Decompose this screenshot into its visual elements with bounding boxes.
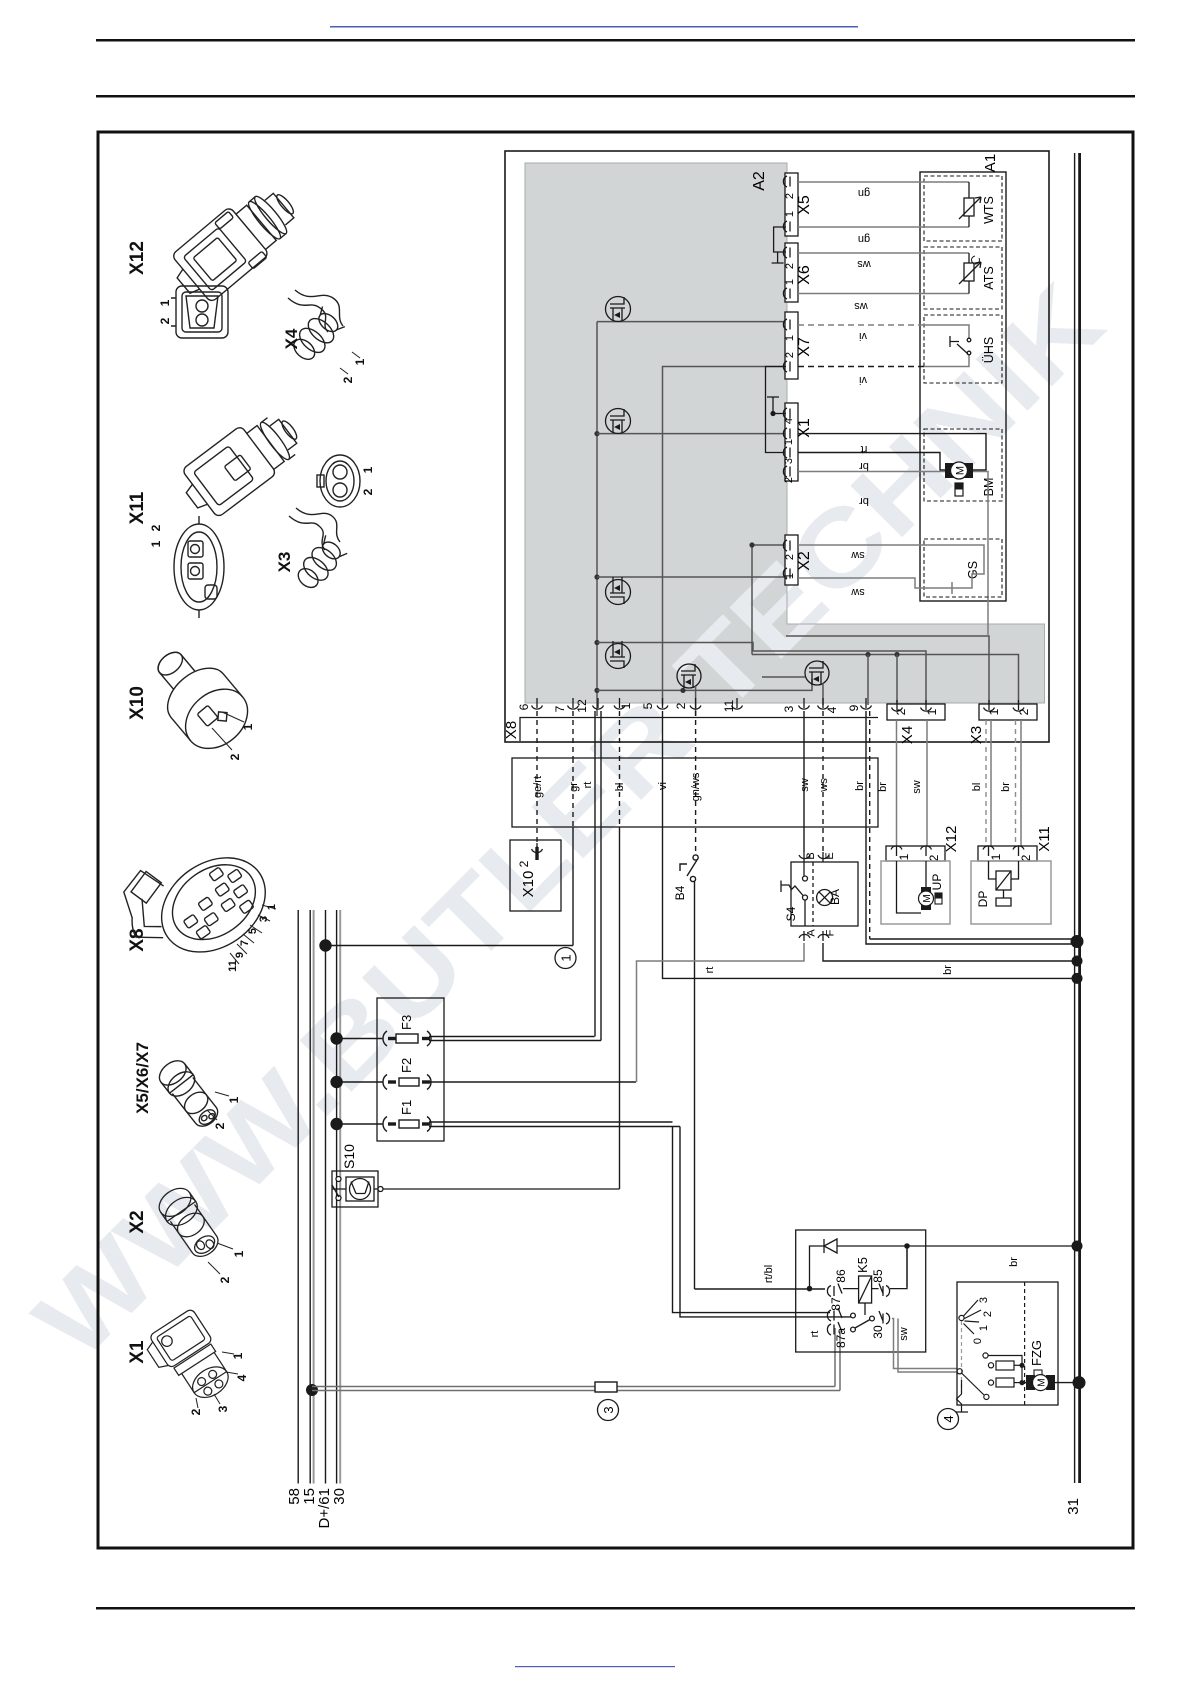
wire K5.30 sw to FZG	[892, 1319, 957, 1373]
svg-text:30: 30	[871, 1325, 885, 1339]
UHS switch box	[924, 315, 1002, 383]
svg-text:2: 2	[784, 554, 796, 560]
FZG resistor ladder	[983, 1353, 1025, 1387]
fuse box	[377, 998, 444, 1141]
svg-text:1: 1	[784, 573, 796, 579]
MOSFET Q6	[762, 661, 829, 705]
svg-text:2: 2	[1017, 708, 1031, 715]
circled 1	[555, 948, 576, 969]
svg-text:X6: X6	[796, 265, 813, 285]
ECU grey base fill	[525, 163, 1045, 703]
svg-text:vi: vi	[859, 330, 867, 342]
MOSFET Q2	[606, 409, 631, 434]
svg-text:87: 87	[829, 1297, 843, 1311]
circled 4	[938, 1409, 959, 1430]
svg-text:X1: X1	[796, 418, 813, 438]
wire ge/rt	[536, 711, 538, 852]
svg-text:UP: UP	[930, 874, 944, 891]
svg-text:2: 2	[784, 193, 796, 199]
svg-text:1: 1	[158, 299, 172, 306]
connector X11 wire to X3 boot	[296, 508, 340, 542]
GS element symbol	[952, 567, 984, 594]
bus D+/61	[325, 910, 327, 1484]
fuse F3	[331, 1031, 601, 1046]
svg-text:85: 85	[871, 1269, 885, 1283]
svg-text:4: 4	[235, 1374, 249, 1381]
BM motor box	[924, 429, 1002, 501]
wire X6.1 ws	[798, 293, 969, 295]
K5 diode branch	[807, 1239, 1078, 1291]
svg-text:X5/X6/X7: X5/X6/X7	[133, 1042, 152, 1114]
svg-text:X4: X4	[282, 328, 301, 349]
connector X1 body	[142, 1308, 239, 1412]
svg-text:F: F	[825, 929, 837, 936]
svg-text:br: br	[859, 495, 869, 507]
svg-text:1: 1	[987, 708, 1001, 715]
svg-text:A1: A1	[982, 154, 999, 172]
bus 15	[309, 910, 311, 1484]
svg-text:3: 3	[783, 458, 795, 464]
wire vi to bus31	[663, 711, 1079, 978]
svg-text:gn/ws: gn/ws	[690, 772, 702, 801]
X8 connector bracket	[520, 718, 878, 742]
wire X5.1 gn	[798, 226, 969, 228]
wire X4.2 br to X12.1	[896, 720, 898, 849]
connector X8 body	[106, 815, 283, 986]
svg-text:sw: sw	[851, 549, 865, 561]
X3 pin box	[979, 700, 1037, 720]
svg-text:X11: X11	[1036, 826, 1053, 852]
svg-text:gn: gn	[858, 233, 870, 245]
footer blue rule	[515, 1666, 675, 1667]
wire sw to S4	[803, 711, 805, 852]
svg-text:br: br	[854, 781, 866, 791]
X8 pin leaders	[230, 905, 276, 964]
internal wire to X1.1	[597, 433, 786, 435]
bus 30	[336, 910, 338, 1484]
SECTION: bus lines	[298, 910, 340, 1484]
sleeve symbol on pair	[595, 1382, 617, 1392]
svg-text:1: 1	[783, 439, 795, 445]
switch B4	[680, 855, 698, 1289]
X10 box	[510, 840, 561, 911]
wire X5.2 gn	[798, 181, 969, 183]
svg-text:2: 2	[218, 1276, 232, 1283]
X2 pin leaders	[208, 1243, 233, 1274]
svg-text:vi: vi	[859, 374, 867, 386]
svg-text:X4: X4	[899, 726, 916, 744]
svg-text:X8: X8	[127, 928, 148, 951]
svg-text:X10: X10	[520, 871, 537, 898]
svg-text:bl: bl	[971, 783, 983, 792]
connector X5/X6/X7 body	[155, 1056, 224, 1132]
svg-text:K5: K5	[855, 1257, 870, 1273]
svg-text:1: 1	[266, 904, 278, 910]
svg-text:4: 4	[825, 706, 839, 713]
svg-text:1: 1	[784, 279, 796, 285]
svg-text:1: 1	[897, 853, 911, 860]
svg-text:BA: BA	[828, 889, 842, 905]
svg-text:ge/rt: ge/rt	[532, 776, 544, 798]
boot X4	[288, 307, 345, 366]
svg-text:X3: X3	[275, 552, 294, 573]
MOSFET Q1	[606, 297, 631, 322]
svg-text:2: 2	[674, 702, 688, 709]
svg-text:M: M	[955, 466, 967, 475]
bracket X7.2-X1.3	[766, 367, 787, 453]
wire X4.1 sw to X12.2	[926, 720, 928, 849]
svg-text:0: 0	[972, 1338, 984, 1344]
svg-text:S10: S10	[341, 1144, 357, 1169]
UHS thermo switch	[950, 336, 971, 355]
wire rt pair	[595, 711, 601, 1041]
svg-text:X12: X12	[127, 241, 148, 275]
UP dosing pump body	[881, 861, 950, 924]
svg-text:1: 1	[978, 1325, 990, 1331]
FZG blower motor	[1022, 1375, 1079, 1391]
svg-text:E: E	[824, 852, 836, 859]
FZG icon	[1034, 1370, 1042, 1382]
svg-text:B: B	[805, 852, 817, 859]
svg-text:br: br	[1008, 1257, 1020, 1267]
ECU grey body A2	[525, 163, 1045, 703]
svg-text:F1: F1	[399, 1100, 414, 1115]
heater switch S4 with lamp BA	[781, 852, 858, 941]
wire X3.2 br pair to X11.2	[1015, 720, 1017, 849]
svg-text:1: 1	[149, 540, 163, 547]
wire X1.2 br	[798, 472, 988, 637]
footer rule	[96, 1607, 1135, 1610]
connector strip X6	[783, 243, 798, 302]
svg-text:2: 2	[213, 1122, 227, 1129]
svg-text:gn: gn	[858, 187, 870, 199]
svg-text:sw: sw	[898, 1327, 910, 1341]
svg-text:vi: vi	[657, 782, 669, 790]
svg-text:1: 1	[784, 211, 796, 217]
GS glow box	[924, 539, 1002, 597]
internal wire BM return to X3.1	[786, 636, 989, 705]
X4 pin box	[887, 700, 945, 720]
svg-text:7: 7	[553, 705, 567, 712]
connector strip X5	[783, 173, 798, 236]
svg-text:rt/bl: rt/bl	[763, 1265, 775, 1283]
svg-text:M: M	[1037, 1378, 1048, 1386]
svg-text:5: 5	[641, 702, 655, 709]
wire X1.3 br	[798, 453, 946, 471]
svg-text:ws: ws	[818, 778, 830, 793]
svg-text:BM: BM	[982, 478, 996, 497]
svg-text:2: 2	[517, 860, 531, 867]
svg-text:FZG: FZG	[1029, 1340, 1044, 1366]
svg-text:3: 3	[216, 1405, 230, 1412]
connector X2 body	[154, 1183, 225, 1263]
svg-text:1: 1	[353, 358, 367, 365]
svg-text:11: 11	[227, 960, 239, 972]
svg-text:3: 3	[258, 916, 270, 922]
svg-text:rt: rt	[861, 443, 868, 455]
svg-text:M: M	[922, 894, 933, 902]
svg-text:2: 2	[341, 376, 355, 383]
connector X10 body	[138, 635, 259, 761]
connector X12 wire to X4 boot	[295, 290, 343, 326]
svg-text:sw: sw	[799, 778, 811, 792]
svg-text:S4: S4	[784, 906, 798, 921]
svg-text:sw: sw	[911, 780, 923, 794]
header rule 2	[96, 95, 1135, 98]
X4 pin leader labels	[352, 352, 360, 358]
header blue rule	[330, 26, 858, 28]
svg-text:F2: F2	[399, 1058, 414, 1073]
svg-text:X5: X5	[796, 195, 813, 215]
internal wire to X2.1	[597, 576, 786, 578]
svg-text:87a: 87a	[834, 1328, 848, 1348]
internal wire br net	[752, 652, 1019, 705]
DP relay body	[971, 861, 1051, 924]
svg-text:7: 7	[239, 940, 251, 946]
svg-text:9: 9	[234, 952, 246, 958]
svg-text:br: br	[1000, 782, 1012, 792]
svg-text:X7: X7	[796, 337, 813, 357]
svg-text:1: 1	[559, 954, 574, 961]
svg-text:3: 3	[782, 705, 796, 712]
svg-text:gr: gr	[568, 782, 580, 792]
svg-text:11: 11	[722, 699, 736, 712]
SECTION: left connector pictorials	[106, 176, 375, 1416]
wire colour legend box	[512, 758, 878, 827]
ground bus 31	[1075, 153, 1080, 1483]
connector strip X7	[783, 312, 798, 379]
svg-text:rt: rt	[704, 967, 716, 974]
svg-text:WTS: WTS	[982, 196, 996, 224]
internal wire to X7.1	[597, 321, 786, 323]
connector X12 body	[164, 176, 307, 310]
svg-text:X10: X10	[127, 686, 148, 720]
svg-text:B4: B4	[673, 885, 687, 900]
svg-text:ATS: ATS	[982, 266, 996, 289]
svg-text:1: 1	[989, 853, 1003, 860]
WTS resistor	[959, 182, 981, 227]
svg-text:2: 2	[361, 488, 375, 495]
FZG lower switch	[955, 1369, 989, 1412]
wire B4 to K5.86	[695, 1288, 826, 1290]
X8 pin row arcs	[532, 698, 872, 709]
X11 blower connector	[978, 846, 1037, 861]
ATS resistor	[959, 253, 981, 294]
svg-text:X1: X1	[127, 1340, 148, 1364]
svg-text:2: 2	[158, 317, 172, 324]
X10 pin 2	[532, 843, 543, 853]
svg-text:X8: X8	[503, 721, 520, 739]
X1.4 internal tie with tick and node	[767, 397, 786, 416]
X12 pump connector	[886, 846, 945, 861]
svg-text:2: 2	[228, 753, 242, 760]
wire gn/ws	[695, 711, 697, 855]
wire X7.2 vi dashed	[798, 366, 924, 368]
svg-text:GS: GS	[966, 561, 980, 579]
svg-text:A: A	[806, 929, 818, 937]
svg-text:1: 1	[241, 723, 255, 730]
ATS sensor box	[924, 247, 1002, 309]
svg-text:sw: sw	[851, 586, 865, 598]
MOSFET Q3	[606, 577, 631, 605]
wire D+/61 to X8.7	[320, 827, 573, 951]
box A1	[920, 172, 1006, 601]
internal wire to X4.1 pin	[597, 643, 926, 706]
WTS sensor box	[924, 176, 1002, 241]
svg-text:A2: A2	[751, 171, 768, 191]
X5/X6/X7 pin leaders	[207, 1092, 229, 1120]
bus31 junction nodes	[1071, 935, 1084, 948]
svg-text:DP: DP	[976, 891, 990, 908]
bus 58	[297, 910, 299, 1484]
svg-text:6: 6	[517, 703, 531, 710]
svg-text:X11: X11	[127, 491, 148, 524]
svg-text:X12: X12	[943, 826, 960, 853]
svg-text:1: 1	[784, 335, 796, 341]
wire br pair to bus31	[866, 711, 1078, 944]
svg-text:2: 2	[982, 1311, 994, 1317]
circled 3	[598, 1400, 619, 1421]
svg-text:31: 31	[1065, 1498, 1082, 1515]
svg-text:br: br	[859, 460, 869, 472]
svg-text:2: 2	[149, 524, 163, 531]
X11 round 2-pin connector	[174, 516, 224, 618]
K5 coil	[827, 1249, 907, 1315]
switch S10	[332, 1171, 620, 1207]
bracket X5.1-X6.2 with ground tick	[772, 227, 786, 263]
svg-text:3: 3	[601, 1406, 616, 1413]
svg-text:X2: X2	[127, 1210, 148, 1233]
wire X2.2 sw	[798, 545, 984, 567]
svg-text:bl: bl	[614, 783, 626, 792]
svg-text:br: br	[942, 965, 954, 975]
wire S4.A rt to F2	[637, 943, 805, 1082]
svg-text:2: 2	[784, 352, 796, 358]
svg-text:86: 86	[834, 1269, 848, 1283]
boot X3	[292, 535, 347, 593]
FZG rotary switch	[959, 1300, 981, 1393]
vehicle box FZG	[957, 1282, 1058, 1405]
outer rect	[505, 151, 1049, 742]
svg-text:4: 4	[941, 1415, 956, 1422]
svg-text:ÜHS: ÜHS	[982, 337, 996, 363]
svg-text:ws: ws	[854, 300, 869, 312]
svg-text:F3: F3	[399, 1015, 414, 1030]
fuse F1	[331, 1117, 680, 1132]
internal wire X2.2 down	[752, 545, 786, 655]
wire pair circled-3 from bus 15	[306, 1328, 840, 1396]
wire ws to S4	[822, 711, 824, 852]
header rule 1	[96, 39, 1135, 42]
svg-text:ws: ws	[857, 258, 872, 270]
relay K5 box	[796, 1230, 926, 1352]
X1 pin leaders	[196, 1352, 238, 1408]
svg-text:12: 12	[575, 699, 589, 713]
page frame	[98, 132, 1133, 1548]
svg-text:2: 2	[894, 708, 908, 715]
svg-text:X3: X3	[968, 726, 985, 744]
svg-text:2: 2	[783, 477, 795, 483]
fuse F2	[331, 1075, 636, 1090]
X11 oval 2-pin connector	[317, 455, 360, 507]
MOSFET Q4	[606, 641, 631, 669]
MOSFET Q5	[677, 664, 701, 716]
svg-text:9: 9	[847, 704, 861, 711]
wire gr	[572, 711, 574, 758]
internal wire MOSFET5/6 row	[597, 679, 812, 693]
svg-text:2: 2	[784, 263, 796, 269]
wire X2.1 sw	[798, 578, 952, 588]
wire bl	[619, 711, 621, 827]
wire F1 pair to K5.87	[673, 1127, 852, 1317]
wire S4.F br to bus31	[823, 943, 1078, 961]
BM motor symbol	[945, 462, 973, 496]
svg-text:3: 3	[978, 1297, 990, 1303]
wire X7.1 vi dashed	[798, 324, 924, 326]
connector X11 body	[174, 401, 309, 524]
svg-text:30: 30	[331, 1488, 348, 1505]
svg-text:X2: X2	[796, 551, 813, 571]
svg-text:1: 1	[232, 1250, 246, 1257]
wire X3.1 bl pair to X11.1	[985, 720, 987, 849]
svg-text:2: 2	[189, 1408, 203, 1415]
internal supply rail	[594, 322, 599, 716]
svg-text:br: br	[877, 782, 889, 792]
connector strip X2	[783, 535, 798, 585]
K5 contacts	[827, 1308, 889, 1335]
svg-text:1: 1	[925, 708, 939, 715]
svg-text:rt: rt	[809, 1331, 821, 1338]
connector strip X1	[783, 403, 798, 481]
internal wire X7.2 to X8.5	[663, 367, 787, 706]
svg-text:1: 1	[361, 466, 375, 473]
svg-text:1: 1	[227, 1096, 241, 1103]
X12 mating square connector	[171, 286, 228, 338]
svg-text:rt: rt	[582, 782, 594, 789]
svg-text:1: 1	[619, 702, 633, 709]
wire X1.1 rt	[798, 434, 986, 470]
X10 pin leaders	[222, 712, 244, 722]
svg-text:1: 1	[231, 1352, 245, 1359]
svg-text:5: 5	[247, 928, 259, 934]
wire X6.2 ws	[798, 252, 969, 254]
svg-text:4: 4	[783, 418, 795, 424]
watermark BUTLER TECHNIK	[13, 262, 1125, 1381]
